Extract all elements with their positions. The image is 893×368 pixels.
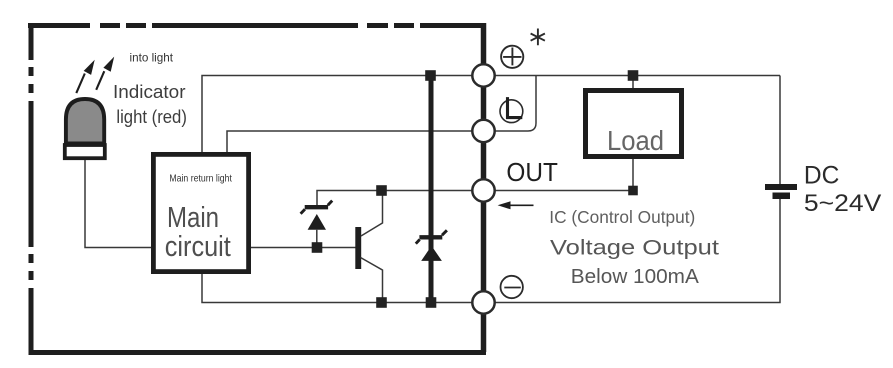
- thick branch: zener D2 vertical line: [429, 76, 434, 303]
- wire: battery positive branch: [779, 76, 781, 187]
- label: Voltage Output: [550, 237, 719, 260]
- svg-text:DC: DC: [804, 162, 840, 189]
- sensor enclosure dashed border (left chain line): [29, 23, 34, 352]
- terminal 4 (0V): [472, 291, 494, 313]
- label: 5~24V: [804, 190, 882, 217]
- terminal strip thick vertical line (enclosure right side): [481, 23, 487, 352]
- svg-text:Load: Load: [607, 125, 664, 156]
- svg-text:5~24V: 5~24V: [804, 190, 882, 217]
- terminal 2 (L): [472, 120, 494, 142]
- wire: load bottom lead: [632, 159, 634, 191]
- terminal 3 (OUT): [472, 179, 494, 201]
- label: Indicator light (red): [113, 81, 187, 127]
- svg-text:Below 100mA: Below 100mA: [571, 266, 700, 288]
- junction at OUT wire / load bottom: [628, 186, 638, 196]
- main circuit box: [153, 154, 248, 271]
- wire: +V rail from main circuit top to battery branch: [202, 76, 780, 154]
- label: Main return light: [169, 173, 232, 185]
- wire: L terminal net (main circuit to terminal 2 and loop up to +V rail): [227, 76, 536, 154]
- transistor Q1 (NPN): [355, 191, 382, 303]
- label: Load: [607, 125, 664, 156]
- LED emission arrow 2: [96, 57, 114, 90]
- junction at +V rail / D2 branch: [425, 70, 436, 81]
- wire: transistor base wire from main circuit: [251, 247, 356, 249]
- junction at OUT wire / collector / D1: [376, 185, 387, 196]
- svg-text:Voltage Output: Voltage Output: [550, 237, 719, 260]
- minus symbol (circled -): [501, 276, 523, 298]
- wire: OUT net (zener D1 top, collector junction, terminal 3, load bottom): [317, 191, 633, 209]
- wire: zener D1 anode stub: [316, 230, 318, 248]
- LED emission arrow 1: [76, 60, 94, 93]
- asterisk marker: [531, 29, 545, 46]
- svg-text:Indicator: Indicator: [113, 81, 186, 102]
- junction at base wire / D1 anode: [312, 242, 323, 253]
- zener diode D2: [416, 230, 447, 261]
- terminal 1 (+V): [472, 64, 494, 86]
- junction at negative rail / D2 bottom: [426, 297, 437, 308]
- junction at +V rail / load top: [628, 70, 639, 81]
- wire: load top lead: [632, 76, 634, 91]
- svg-text:Main return light: Main return light: [169, 173, 232, 185]
- label: DC: [804, 162, 840, 189]
- label: Below 100mA: [571, 266, 700, 288]
- wire: negative rail (main circuit bottom, emitter, D2, terminal 4, battery minus): [202, 198, 780, 303]
- sensor enclosure border (bottom solid): [29, 350, 487, 355]
- label: Main circuit: [165, 202, 231, 263]
- plus symbol (circled +): [501, 46, 523, 68]
- battery DC source: [765, 184, 797, 199]
- label: into light: [130, 51, 174, 65]
- arrow pointing to OUT terminal: [498, 201, 534, 209]
- svg-text:circuit: circuit: [165, 231, 231, 263]
- load box: [586, 91, 682, 157]
- sensor enclosure dashed border (top chain line): [28, 23, 486, 28]
- svg-text:into light: into light: [130, 51, 174, 65]
- wire: indicator LED lead to main circuit: [85, 159, 152, 248]
- label: OUT: [506, 159, 558, 187]
- svg-text:Main: Main: [167, 202, 219, 234]
- svg-text:OUT: OUT: [506, 159, 558, 187]
- svg-text:IC (Control Output): IC (Control Output): [549, 207, 695, 227]
- indicator LED (red): [65, 99, 105, 158]
- zener diode D1: [301, 201, 333, 230]
- svg-text:light (red): light (red): [116, 106, 186, 127]
- L terminal symbol (circled L): [500, 97, 523, 122]
- label: IC (Control Output): [549, 207, 695, 227]
- junction at negative rail / emitter: [376, 297, 387, 308]
